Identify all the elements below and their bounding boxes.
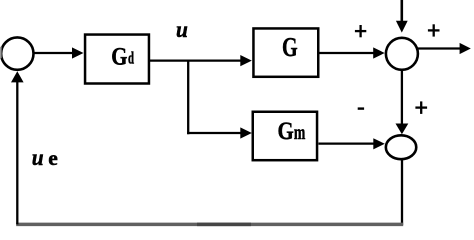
arrowhead into Gm bbox=[240, 127, 252, 138]
arrowhead into S3 left bbox=[373, 138, 385, 149]
arrowhead into Gd bbox=[72, 47, 84, 58]
wire S2 down to S3 bbox=[401, 70, 403, 125]
arrowhead into S1 bottom bbox=[11, 71, 24, 82]
arrowhead into S2 left bbox=[373, 47, 385, 58]
wire branch to Gm bbox=[187, 132, 241, 134]
block G bbox=[253, 28, 318, 76]
summing junction S1 (left circle) bbox=[1, 37, 33, 69]
wire Gd to G bbox=[149, 59, 242, 61]
feedback wire bottom darker segment bbox=[197, 223, 251, 227]
arrowhead into S3 top bbox=[396, 124, 409, 135]
wire S3 down bbox=[401, 160, 403, 225]
wire S1 to Gd bbox=[34, 52, 74, 54]
block Gm bbox=[253, 112, 317, 160]
arrowhead into G bbox=[240, 55, 252, 66]
svg-text:u: u bbox=[176, 16, 188, 42]
feedback wire vertical up to S1 bbox=[16, 82, 18, 225]
junction branch wire (vertical from Gd-G wire down) bbox=[187, 60, 189, 135]
plus sign (into S3 from top) bbox=[415, 101, 427, 114]
summing junction S2 (right circle) bbox=[386, 38, 418, 70]
input arrowhead remnant at left edge (node w, cropped) bbox=[0, 47, 2, 58]
svg-text:m: m bbox=[294, 120, 305, 144]
block Gd bbox=[85, 35, 149, 84]
top disturbance wire into S2 bbox=[400, 0, 403, 22]
minus sign (S2 branch into S3) bbox=[358, 107, 364, 109]
wire Gm to S3 bbox=[319, 142, 376, 144]
output arrowhead bbox=[460, 43, 471, 54]
svg-text:e: e bbox=[48, 146, 58, 170]
svg-text:G: G bbox=[111, 43, 127, 70]
svg-text:u: u bbox=[32, 144, 44, 170]
output wire from S2 bbox=[418, 47, 462, 49]
arrowhead into S2 top bbox=[396, 21, 408, 33]
wire G to S2 bbox=[319, 52, 375, 54]
svg-text:G: G bbox=[282, 33, 298, 63]
feedback wire bottom (gray) bbox=[16, 223, 403, 227]
summing junction S3 (bottom ellipse) bbox=[386, 135, 416, 159]
svg-text:G: G bbox=[277, 117, 293, 145]
plus sign (output of S2) bbox=[428, 24, 440, 36]
plus sign (G into S2) bbox=[355, 25, 366, 37]
svg-text:d: d bbox=[128, 49, 134, 68]
